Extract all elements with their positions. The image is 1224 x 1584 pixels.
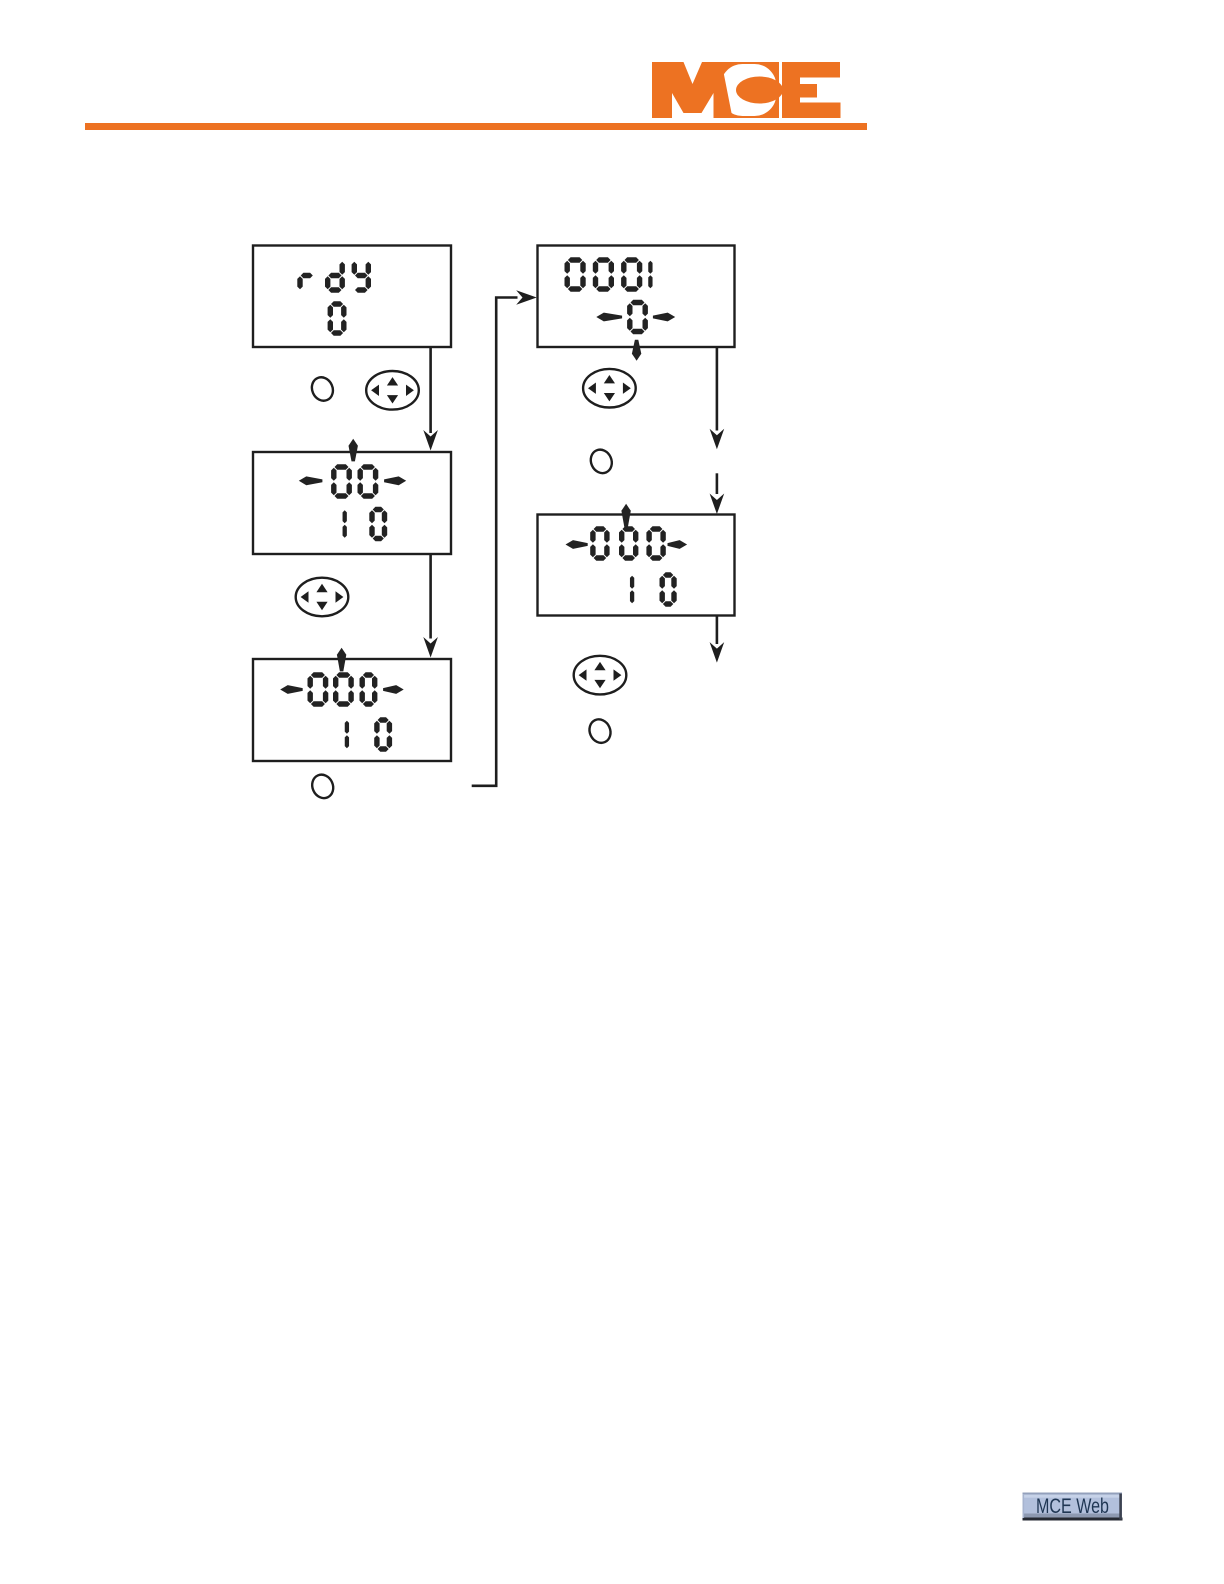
LCD digits "000" box 5 line 1 [590, 526, 666, 560]
flow arrow box 2 to box 3 [423, 555, 438, 658]
cursor arrow up box 5 [621, 504, 630, 528]
cursor arrow left box 3 [280, 685, 303, 694]
cursor arrow left box 4 [596, 313, 622, 322]
enter button circle 2 (below box 3) [309, 771, 337, 801]
feedback line box 3 to box 4 [472, 290, 537, 786]
LCD digits "00" box 2 line 1 [331, 464, 378, 498]
LCD digits "0001" box 4 line 1 [565, 257, 653, 291]
MCE Web button [1023, 1493, 1123, 1521]
display box 1 (rdy 0) [253, 246, 451, 348]
nav button oval 2 (between box 2 and 3) [296, 578, 349, 617]
cursor arrow up box 2 [349, 439, 358, 462]
LCD digit "0" box 1 line 2 [328, 301, 347, 335]
MCE logo letter M [652, 62, 733, 118]
display box 3 (000 / 10) [253, 659, 451, 761]
cursor arrow right box 5 [668, 540, 688, 549]
cursor arrow up box 3 [337, 648, 346, 672]
display box 2 (00 / 10) [253, 452, 451, 554]
flow arrow into box 5 (lower) [710, 473, 725, 514]
nav button oval 4 (below box 5) [574, 656, 627, 695]
enter button circle 3 (below box 4) [587, 446, 615, 476]
header orange rule [85, 123, 867, 130]
cursor arrow left box 2 [299, 476, 323, 485]
MCE logo C white ring [721, 64, 777, 116]
display box 4 (0001 / 0) [538, 246, 735, 348]
flow arrow box 4 down (upper) [710, 348, 725, 449]
cursor arrow right box 4 [653, 313, 675, 322]
LCD digits "10" box 2 line 2 [343, 507, 388, 541]
LCD digits "000" box 3 line 1 [308, 672, 378, 706]
svg-text:MCE Web: MCE Web [1036, 1495, 1109, 1518]
enter button circle 1 (between box 1 and 2) [308, 374, 336, 404]
MCE logo letter E [782, 62, 841, 118]
enter button circle 4 (below box 5) [586, 716, 614, 746]
nav button oval 1 (between box 1 and 2) [366, 371, 419, 410]
nav button oval 3 (below box 4) [583, 369, 636, 408]
LCD digit "0" box 4 line 2 [627, 300, 648, 334]
cursor arrow right box 3 [383, 685, 404, 694]
cursor arrow down box 4 [632, 340, 641, 361]
cursor arrow left box 5 [566, 540, 588, 549]
MCE logo C inner oval [736, 77, 783, 104]
flow arrow box 1 to box 2 [423, 348, 438, 451]
LCD digits "10" box 5 line 2 [630, 572, 677, 606]
LCD digits "10" box 3 line 2 [345, 717, 392, 751]
flow arrow box 5 down [710, 616, 725, 663]
LCD text "rdy" box 1 line 1 [297, 262, 371, 293]
MCE logo C block [716, 62, 779, 118]
display box 5 (000 / 10) [538, 515, 735, 616]
cursor arrow right box 2 [384, 476, 406, 485]
